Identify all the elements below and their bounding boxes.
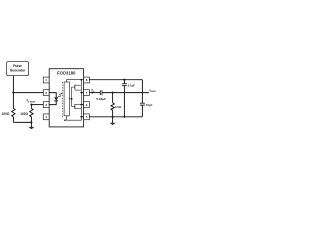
node VO probe [91, 92, 93, 94]
junction dot 0.1uF top [123, 79, 125, 81]
junction dot pin 7 [80, 92, 82, 94]
detector amplifier block [64, 82, 69, 116]
pin 7 [84, 90, 90, 96]
svg-text:FOD3180: FOD3180 [57, 70, 76, 75]
svg-text:Generator: Generator [10, 68, 26, 72]
LED light arrows [58, 93, 63, 97]
wire node A to pin 2 [13, 92, 43, 94]
junction dot pin 6 [80, 104, 82, 106]
junction dot VCC bus [80, 79, 82, 81]
wire VO rail pin 7 [89, 92, 100, 94]
internal ground wire [67, 116, 82, 120]
isolation dashed line [61, 82, 63, 118]
wire bus to pin 5 [81, 116, 83, 118]
junction dot pin 5 [80, 116, 82, 118]
pin 8 [84, 77, 90, 83]
capacitor C3 10uF [140, 80, 153, 117]
label IF(MON) [26, 99, 28, 102]
pin 1 [43, 77, 49, 83]
junction dot 0.1uF bottom [123, 116, 125, 118]
junction dot sense resistor bottom [112, 116, 114, 118]
svg-text:100Ω: 100Ω [20, 112, 28, 116]
svg-text:100Ω: 100Ω [2, 112, 10, 116]
svg-text:F MON: F MON [28, 101, 35, 103]
node junction resistor R2 bottom [30, 121, 32, 123]
transistor Q1 p-channel [72, 85, 82, 91]
wire detector to gate line [69, 98, 71, 100]
transistor Q2 n-channel [72, 104, 82, 109]
node A junction [12, 92, 14, 94]
ground input side [28, 122, 34, 129]
op-amp U1 FOD3180 body [49, 69, 83, 127]
wire node to pin 3 [31, 104, 43, 106]
pulse generator box [7, 62, 29, 76]
node IF monitor [30, 104, 32, 106]
pin 4 [43, 114, 49, 120]
LED D1 internal [49, 93, 58, 105]
pin 2 [43, 90, 49, 96]
ground output side [110, 117, 116, 125]
pin 6 [84, 102, 90, 108]
junction dot gate [71, 98, 73, 100]
resistor R1 100ohm [2, 93, 15, 123]
pin 5 [84, 114, 90, 120]
svg-text:0.1μF: 0.1μF [128, 83, 136, 87]
wire pulse generator to node A [12, 76, 14, 93]
pin 3 [43, 102, 49, 108]
svg-text:0.33μF: 0.33μF [96, 97, 106, 101]
gate line [71, 87, 73, 106]
resistor R2 100ohm [20, 105, 33, 123]
capacitor C2 0.33uF [96, 90, 106, 101]
junction dot sense resistor top [112, 92, 114, 94]
wire bus to pin 7 [81, 92, 83, 94]
internal output bus [80, 80, 82, 117]
wire bottom rail input [13, 121, 31, 123]
wire bottom rail output [89, 116, 142, 118]
svg-text:10μF: 10μF [146, 103, 153, 107]
capacitor C1 0.1uF [122, 80, 135, 117]
internal VCC wire to pin 8 [67, 80, 84, 82]
wire bus to pin 6 [81, 104, 83, 106]
svg-text:0.5Ω: 0.5Ω [115, 105, 122, 109]
resistor R3 0.5ohm [111, 93, 122, 117]
wire VCC rail pin 8 [89, 79, 142, 81]
wire VO rail to VMON [102, 92, 149, 94]
